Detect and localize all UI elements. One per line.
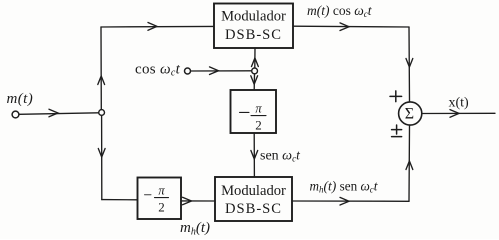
node A junction [99, 110, 105, 116]
wire junction B down into phase shifter U3 [253, 74, 255, 90]
summer U4 sigma circle [399, 102, 422, 125]
svg-text:2: 2 [158, 200, 165, 215]
svg-text:mh(t) sen ωct: mh(t) sen ωct [310, 179, 379, 195]
svg-text:Modulador: Modulador [221, 9, 286, 25]
svg-text:π: π [255, 102, 262, 116]
modulator U1 DSB-SC box (top) [214, 4, 293, 49]
wire pi/2 box to bottom modulator (mh(t) net) [181, 200, 215, 202]
svg-text:x(t): x(t) [449, 96, 470, 111]
wire junction A up to corner [100, 27, 102, 110]
svg-text:DSB-SC: DSB-SC [225, 27, 282, 43]
value label -pi/2 in middle box [240, 111, 250, 113]
svg-text:mh(t): mh(t) [180, 220, 210, 238]
wire carrier input to junction B [191, 70, 252, 72]
wire bottom modulator output to corner [292, 200, 409, 202]
node cos carrier input terminal [185, 68, 191, 74]
svg-text:π: π [158, 184, 165, 198]
value label -pi/2 in bottom-left box [145, 194, 152, 196]
node m(t) input terminal [12, 111, 19, 118]
wire summer to x(t) output [422, 112, 495, 114]
label plus-minus on summer [392, 125, 402, 137]
wire junction A down to corner [101, 115, 103, 199]
wire sen carrier net: U3 to bottom modulator [253, 133, 255, 177]
wire corner up to summer [408, 125, 411, 201]
svg-text:m(t) cos ωct: m(t) cos ωct [307, 3, 373, 19]
svg-text:2: 2 [255, 118, 262, 133]
node B carrier junction [252, 68, 258, 74]
modulator U2 DSB-SC box (bottom) [215, 177, 292, 221]
wire top modulator output to corner [293, 25, 409, 28]
wire junction B up into top modulator [254, 48, 256, 68]
svg-text:DSB-SC: DSB-SC [225, 201, 282, 217]
phase shifter box U3 -pi/2 (middle) [231, 90, 277, 133]
svg-text:m(t): m(t) [7, 91, 34, 107]
wire m(t) input to junction A [19, 113, 98, 115]
svg-text:Modulador: Modulador [221, 183, 286, 199]
wire corner down to summer [408, 27, 411, 102]
wire corner to top modulator input [101, 25, 214, 28]
label + on summer [390, 91, 402, 102]
svg-text:Σ: Σ [405, 106, 414, 123]
svg-text:cos ωct: cos ωct [135, 62, 181, 79]
wire corner to pi/2 box [102, 199, 137, 201]
phase shifter box -pi/2 (bottom left) [138, 178, 182, 220]
svg-text:sen ωct: sen ωct [260, 148, 301, 164]
